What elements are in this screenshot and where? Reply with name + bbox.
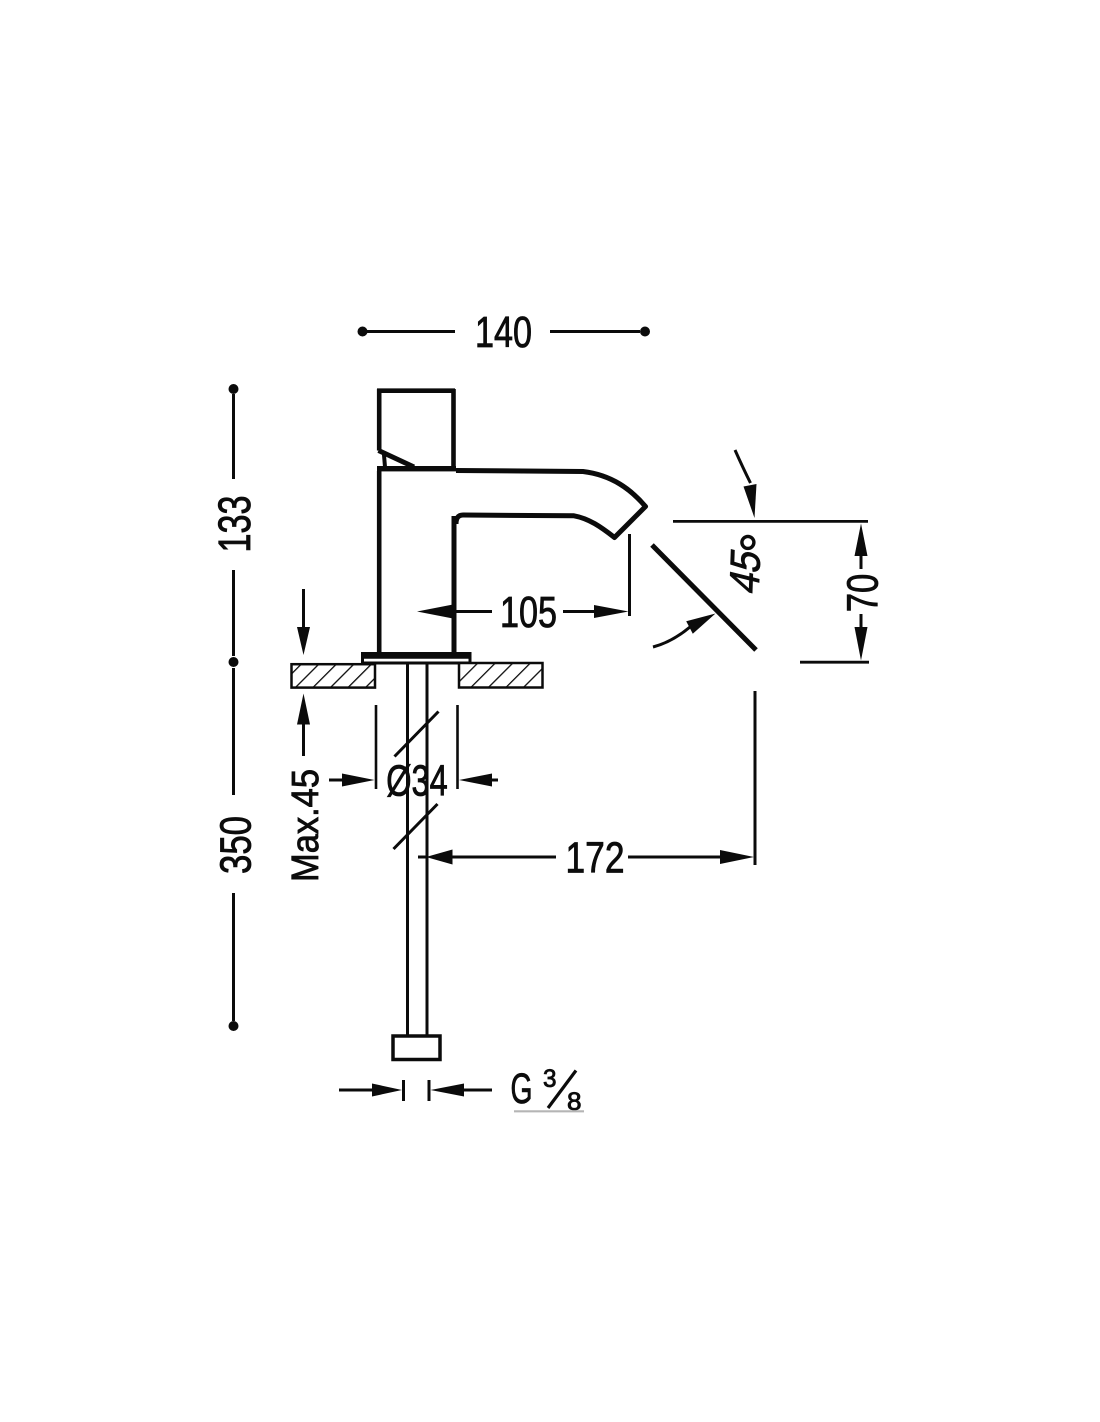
dim G38 fraction slash <box>548 1071 576 1109</box>
spout angle lower leader curve <box>653 627 690 647</box>
spout angle upper leader arrowhead <box>744 484 757 518</box>
dim 350 bottom dot <box>229 1021 239 1031</box>
dim O34 left arrow shaft <box>329 779 348 782</box>
svg-text:172: 172 <box>566 834 625 883</box>
dim O34 left arrowhead <box>342 774 375 787</box>
faucet handle left edge <box>377 389 382 451</box>
dim Max.45 up arrow shaft <box>302 724 305 756</box>
shank break mark lower <box>394 804 438 849</box>
shank end cap <box>393 1036 440 1060</box>
dim 172 right arrowhead <box>720 850 754 864</box>
dim 172 left stub <box>418 856 426 859</box>
dim 350 line upper <box>232 668 235 795</box>
dim G38 left shaft <box>339 1089 374 1092</box>
shank right line <box>426 663 429 1036</box>
svg-text:Ø34: Ø34 <box>386 757 448 806</box>
faucet handle lever diagonal <box>379 451 415 468</box>
dim 105 right arrowhead <box>594 605 629 618</box>
dim O34 right arrow shaft <box>490 779 498 782</box>
dim 140 left dot <box>358 327 368 337</box>
faucet body left edge <box>377 471 382 654</box>
dim O34 left extension line <box>375 705 378 789</box>
dim 70 bottom line <box>800 661 869 664</box>
dim 140 right dot <box>640 327 650 337</box>
dim G38 left tick <box>402 1080 405 1101</box>
svg-text:140: 140 <box>475 308 532 357</box>
dim Max.45 up arrowhead <box>297 694 310 725</box>
dim 172 extension line <box>754 691 757 865</box>
dim 70 down arrowhead <box>855 627 868 661</box>
dim G38 right tick <box>428 1080 431 1101</box>
dim 105 extension line <box>628 534 631 616</box>
dim 140 left line <box>367 330 455 333</box>
spout axis 45 deg line <box>652 545 756 650</box>
faucet handle top edge <box>377 388 455 393</box>
svg-text:105: 105 <box>500 588 557 637</box>
svg-text:3: 3 <box>543 1065 557 1093</box>
spout angle lower leader arrowhead <box>686 614 715 634</box>
dim 133 line upper <box>232 394 235 479</box>
dim O34 right extension line <box>456 705 459 789</box>
spout angle top line <box>673 520 868 523</box>
dim 70 shaft upper <box>860 554 863 569</box>
dim G38 gray underline <box>514 1110 584 1112</box>
faucet joint bar <box>377 466 456 471</box>
svg-text:Max.45: Max.45 <box>285 769 327 882</box>
countertop right hatched section <box>459 663 543 688</box>
svg-text:70: 70 <box>838 574 887 613</box>
faucet spout outline <box>456 471 646 538</box>
dim 70 up arrowhead <box>855 524 868 557</box>
dim 70 shaft lower <box>860 614 863 627</box>
dim 350 line lower <box>232 893 235 1021</box>
svg-text:G: G <box>511 1065 533 1113</box>
shank break mark upper <box>395 712 439 757</box>
dim 172 line left <box>452 856 556 859</box>
dim 172 left arrowhead <box>426 850 453 865</box>
faucet handle lever tip <box>384 453 385 470</box>
svg-text:133: 133 <box>209 496 260 553</box>
dim G38 right arrowhead <box>431 1084 465 1097</box>
dim 45 deg ring <box>742 536 754 548</box>
faucet body right edge <box>452 516 457 654</box>
dim 172 line right <box>628 856 722 859</box>
dim Max.45 down arrowhead <box>297 627 310 655</box>
dim Max.45 down arrow shaft <box>302 589 305 630</box>
faucet handle right edge <box>451 389 456 466</box>
dim 105 line right <box>563 610 598 613</box>
faucet base flange <box>363 654 471 664</box>
dim 133 top dot <box>229 384 239 394</box>
countertop left hatched section <box>292 664 376 687</box>
dim 105 line left <box>457 610 493 613</box>
svg-text:350: 350 <box>212 816 261 874</box>
spout angle upper leader curve <box>735 450 751 483</box>
shank left line <box>406 663 409 1036</box>
dim 105 left arrowhead <box>417 605 453 619</box>
faucet base flange top bar <box>362 653 470 659</box>
dim 133/350 middle dot <box>229 657 239 667</box>
dim O34 right arrowhead <box>459 774 492 787</box>
dim 133 line lower <box>232 570 235 656</box>
dim G38 left arrowhead <box>372 1084 402 1097</box>
dim 140 right line <box>550 330 640 333</box>
dim G38 right shaft <box>462 1089 492 1092</box>
